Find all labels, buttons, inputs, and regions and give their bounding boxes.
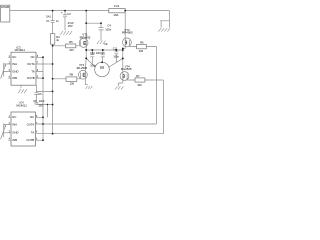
svg-text:R5: R5 xyxy=(69,40,73,44)
svg-text:100n: 100n xyxy=(113,55,119,58)
svg-text:IRL2505: IRL2505 xyxy=(77,66,88,70)
svg-text:OUTA: OUTA xyxy=(27,122,35,126)
svg-text:TA: TA xyxy=(31,131,35,135)
svg-text:25V: 25V xyxy=(39,104,44,108)
svg-text:R6: R6 xyxy=(140,40,144,44)
svg-text:INB: INB xyxy=(12,138,17,142)
svg-text:INA: INA xyxy=(12,62,17,66)
svg-text:INB: INB xyxy=(12,76,17,80)
svg-text:25V: 25V xyxy=(68,24,73,28)
svg-text:100n: 100n xyxy=(90,64,96,67)
svg-text:100n: 100n xyxy=(105,28,111,32)
svg-text:100: 100 xyxy=(137,83,142,87)
svg-text:+: + xyxy=(61,10,63,14)
svg-text:C1: C1 xyxy=(46,19,50,23)
svg-text:FU1: FU1 xyxy=(114,4,120,8)
svg-text:OUTA: OUTA xyxy=(27,62,35,66)
svg-text:OUTB: OUTB xyxy=(27,76,35,80)
svg-text:NC: NC xyxy=(12,55,16,59)
svg-text:10uF: 10uF xyxy=(39,99,45,103)
svg-text:GND: GND xyxy=(12,131,18,135)
svg-text:C4: C4 xyxy=(107,23,111,27)
svg-text:IRF4905: IRF4905 xyxy=(122,31,133,35)
svg-text:C8: C8 xyxy=(104,43,108,46)
svg-text:M: M xyxy=(100,65,104,70)
svg-text:TA: TA xyxy=(31,69,35,73)
svg-text:OUTB: OUTB xyxy=(26,138,34,142)
svg-text:C2: C2 xyxy=(67,12,71,16)
svg-text:SA1: SA1 xyxy=(46,15,51,19)
svg-text:100: 100 xyxy=(139,49,144,53)
svg-text:MC4011: MC4011 xyxy=(16,103,27,107)
svg-text:100: 100 xyxy=(69,48,74,52)
svg-text:R8: R8 xyxy=(70,72,74,76)
svg-text:C10: C10 xyxy=(90,52,95,55)
svg-text:R7: R7 xyxy=(136,74,140,78)
svg-text:NC: NC xyxy=(12,115,16,119)
svg-text:IRL2505: IRL2505 xyxy=(121,67,132,71)
svg-text:100: 100 xyxy=(70,81,75,85)
svg-text:NC: NC xyxy=(30,115,34,119)
svg-text:GND: GND xyxy=(12,69,18,73)
svg-text:NC: NC xyxy=(31,55,35,59)
svg-text:MC4011: MC4011 xyxy=(15,48,26,52)
svg-text:10A: 10A xyxy=(113,13,118,17)
svg-text:C6: C6 xyxy=(33,99,37,103)
svg-text:6: 6 xyxy=(36,131,38,133)
svg-text:INA: INA xyxy=(12,122,17,126)
svg-text:IRF4905: IRF4905 xyxy=(80,35,91,39)
svg-text:C5: C5 xyxy=(38,92,42,96)
svg-text:БП12В: БП12В xyxy=(1,6,9,9)
svg-text:C11: C11 xyxy=(113,48,118,51)
svg-text:1n: 1n xyxy=(56,19,59,23)
